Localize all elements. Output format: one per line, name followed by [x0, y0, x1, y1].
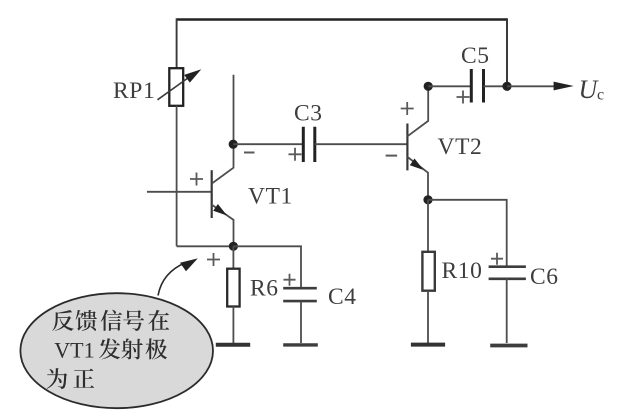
plus at C6: [491, 253, 503, 265]
wire: VT2 emitter node right to C6 branch: [428, 200, 507, 267]
RP1 adjust arrow: [158, 69, 202, 100]
ground under C6: [490, 344, 527, 348]
node: output node: [502, 82, 511, 91]
wire: left drop from top rail into RP1: [176, 18, 178, 68]
wire: C6 to ground: [506, 279, 508, 343]
wire: emitter node right to C4 branch: [233, 246, 301, 288]
capacitor C3: [303, 127, 315, 162]
ground under C4: [283, 343, 318, 346]
output arrow: [507, 85, 556, 87]
svg-text:VT2: VT2: [438, 134, 483, 160]
callout arrow: [158, 263, 186, 296]
bubble CJK text: [47, 310, 170, 389]
resistor R6: [227, 269, 239, 307]
plus at C3: [289, 148, 302, 161]
VT1 collector: [212, 75, 234, 184]
callout bubble: [20, 293, 213, 408]
svg-text:c: c: [597, 87, 604, 104]
wire: feedback corner to VT1 emitter node: [177, 245, 234, 247]
wire: right drop from top rail to output node: [506, 18, 508, 86]
wire: VT1 base input: [147, 191, 212, 193]
svg-text:C5: C5: [461, 43, 490, 69]
wire: C5 to output node: [484, 85, 508, 87]
wire: C4 to ground: [300, 301, 302, 343]
plus at C4: [284, 274, 296, 286]
plus at VT2 collector: [401, 102, 414, 115]
wire: R6 to ground: [232, 307, 234, 344]
plus at VT1 base: [190, 173, 203, 186]
VT1 emitter arrow: [213, 204, 227, 216]
VT2 collector: [407, 86, 428, 136]
node: VT1 collector node: [229, 140, 238, 149]
capacitor C6: [489, 267, 526, 279]
resistor RP1: [169, 68, 183, 106]
VT1 emitter: [212, 205, 234, 247]
VT2 emitter arrow: [410, 159, 424, 171]
minus at VT1 collector node: [244, 152, 255, 154]
resistor R10: [422, 252, 434, 291]
svg-text:VT1: VT1: [54, 338, 94, 363]
svg-text:C4: C4: [328, 284, 357, 310]
ground under R6: [216, 343, 250, 347]
capacitor C4: [283, 288, 317, 301]
wire: RP1 bottom down to feedback corner: [176, 106, 178, 247]
node: VT1 emitter node: [229, 242, 238, 251]
svg-text:C3: C3: [294, 101, 323, 127]
svg-text:C6: C6: [530, 264, 559, 290]
wire: top feedback rail: [177, 18, 507, 21]
transistor VT1 base bar: [211, 170, 213, 218]
wire: VT2 collector node to C5: [428, 85, 471, 87]
wire: C3 right plate to VT2 base: [315, 143, 408, 145]
wire: node to C3 left plate: [233, 143, 303, 145]
svg-text:VT1: VT1: [248, 184, 293, 210]
wire: emitter node down to R6: [232, 246, 234, 268]
transistor VT2 base bar: [406, 124, 408, 171]
svg-text:RP1: RP1: [113, 78, 155, 104]
svg-text:R6: R6: [250, 276, 279, 302]
node: VT2 emitter node: [423, 195, 432, 204]
wire: VT2 emitter node down to R10: [427, 200, 429, 252]
plus at VT1 emitter (feedback polarity): [207, 253, 220, 266]
svg-text:R10: R10: [442, 258, 483, 284]
capacitor C5: [471, 69, 483, 103]
minus at VT2 base: [386, 155, 398, 157]
wire: R10 to ground: [427, 291, 429, 343]
node: VT2 collector node: [424, 82, 433, 91]
VT2 emitter: [407, 157, 428, 200]
ground under R10: [411, 343, 445, 347]
plus at C5: [457, 91, 470, 104]
